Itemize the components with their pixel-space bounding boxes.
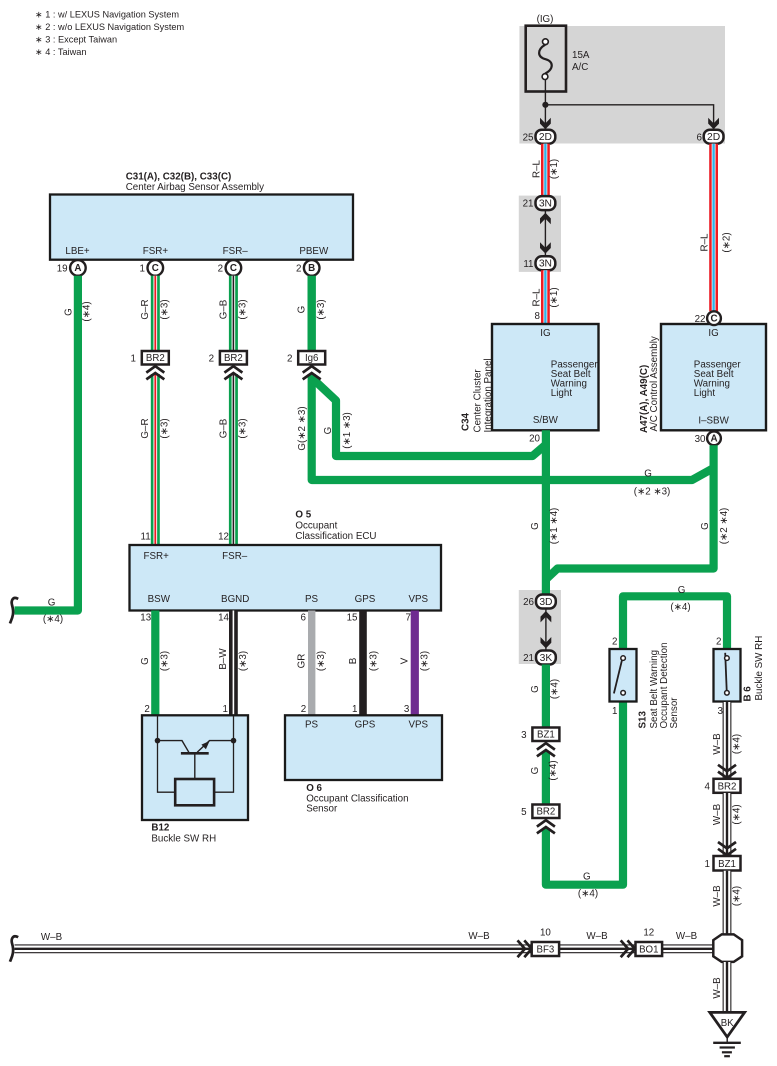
chevrons right into BF3 bbox=[518, 940, 532, 957]
wire W-B junction to BK bbox=[712, 962, 727, 1012]
svg-text:8: 8 bbox=[535, 311, 541, 322]
svg-text:BGND: BGND bbox=[221, 594, 249, 605]
wire GR (*3) PS to O6 bbox=[297, 611, 327, 716]
svg-text:1: 1 bbox=[131, 354, 136, 365]
svg-text:1: 1 bbox=[612, 706, 617, 717]
svg-text:R–L: R–L bbox=[699, 233, 710, 252]
svg-text:11: 11 bbox=[523, 259, 533, 270]
continuation squiggle (G wire) bbox=[10, 598, 18, 623]
wire G (*4) S13 pin2 to B6 pin2 bbox=[623, 585, 727, 649]
svg-text:3: 3 bbox=[521, 730, 527, 741]
connector BZ1 pin 1 bbox=[714, 856, 741, 871]
svg-text:A/C: A/C bbox=[572, 62, 588, 73]
svg-text:G(∗2 ∗3): G(∗2 ∗3) bbox=[297, 406, 308, 450]
svg-text:W–B: W–B bbox=[468, 931, 490, 942]
svg-text:S/BW: S/BW bbox=[533, 415, 559, 426]
arrow into 2D pin 25 bbox=[540, 118, 551, 129]
svg-text:B–W: B–W bbox=[218, 648, 229, 670]
connector BR2 pin 5 bbox=[532, 805, 559, 819]
svg-text:2: 2 bbox=[287, 354, 292, 365]
svg-text:(∗3): (∗3) bbox=[160, 418, 171, 438]
svg-text:G–B: G–B bbox=[218, 299, 229, 319]
svg-text:FSR–: FSR– bbox=[223, 246, 249, 257]
svg-text:G: G bbox=[297, 306, 308, 314]
A47(A) A49(C) A/C Control Assembly box bbox=[661, 324, 766, 430]
svg-text:BK: BK bbox=[721, 1018, 734, 1029]
svg-text:(∗4): (∗4) bbox=[670, 602, 690, 613]
svg-text:C31(A), C32(B), C33(C): C31(A), C32(B), C33(C) bbox=[126, 171, 232, 182]
svg-text:G: G bbox=[530, 685, 541, 693]
svg-text:A: A bbox=[74, 263, 81, 274]
svg-text:(∗1 ∗4): (∗1 ∗4) bbox=[549, 508, 560, 545]
shaded connector area 3D/3K bbox=[519, 590, 561, 664]
wire W-B (*4) B6 pin3 to BR2 bbox=[712, 702, 743, 779]
C31/C32/C33 Center Airbag Sensor Assembly box bbox=[50, 195, 353, 260]
svg-text:IG: IG bbox=[708, 328, 718, 339]
B12 sensor body rectangle bbox=[175, 779, 214, 805]
svg-text:W–B: W–B bbox=[41, 932, 63, 943]
wire W-B bottom horizontal to junction bbox=[15, 944, 714, 953]
ground symbol bbox=[726, 1035, 728, 1043]
svg-text:FSR+: FSR+ bbox=[143, 246, 169, 257]
svg-text:BF3: BF3 bbox=[537, 944, 555, 955]
svg-text:C34: C34 bbox=[460, 412, 471, 431]
wire between 3D and 3K bbox=[545, 609, 547, 652]
svg-text:(∗4): (∗4) bbox=[731, 886, 742, 906]
svg-text:C: C bbox=[710, 313, 717, 324]
svg-text:W–B: W–B bbox=[712, 885, 723, 907]
svg-text:Ig6: Ig6 bbox=[305, 353, 318, 364]
svg-text:B 6: B 6 bbox=[743, 686, 754, 702]
svg-text:2: 2 bbox=[144, 704, 149, 715]
svg-text:(∗3): (∗3) bbox=[316, 299, 327, 319]
svg-text:G: G bbox=[530, 522, 541, 530]
svg-text:PS: PS bbox=[305, 719, 319, 730]
svg-text:Sensor: Sensor bbox=[306, 804, 338, 815]
svg-text:12: 12 bbox=[643, 928, 654, 939]
svg-text:R–L: R–L bbox=[532, 288, 543, 307]
wire G-R (*3) BR2 to O5 FSR+ bbox=[140, 374, 170, 545]
svg-text:(∗3): (∗3) bbox=[238, 651, 249, 671]
svg-text:12: 12 bbox=[218, 532, 229, 543]
svg-text:3D: 3D bbox=[539, 597, 552, 608]
fuse element bbox=[539, 45, 552, 74]
wire G (*3) BSW to B12 bbox=[140, 611, 170, 716]
wire fuse output to junction bbox=[545, 80, 713, 130]
svg-text:(∗4): (∗4) bbox=[731, 734, 742, 754]
svg-text:(∗2): (∗2) bbox=[721, 232, 732, 252]
svg-text:BSW: BSW bbox=[148, 594, 171, 605]
svg-text:2D: 2D bbox=[707, 132, 720, 143]
svg-text:1: 1 bbox=[140, 264, 145, 275]
svg-text:3N: 3N bbox=[539, 259, 552, 270]
wire G (*1 *3) branch from Ig6 to S/BW bbox=[312, 378, 547, 456]
svg-text:G: G bbox=[700, 522, 711, 530]
svg-text:1: 1 bbox=[704, 859, 709, 870]
connector Ig6 pin 2 bbox=[298, 351, 325, 365]
svg-text:Buckle SW RH: Buckle SW RH bbox=[151, 834, 216, 845]
arrow down into 3K bbox=[541, 637, 552, 648]
wire G (*2 *4) from connector A down, left into 3D column bbox=[546, 445, 731, 580]
B12 base to sensor body bbox=[194, 753, 196, 779]
connector A pin 30 bbox=[707, 431, 721, 445]
svg-text:GR: GR bbox=[297, 654, 308, 669]
svg-text:O 5: O 5 bbox=[295, 510, 311, 521]
wire W-B (*4) BR2 to BZ1 bbox=[712, 793, 743, 856]
svg-text:6: 6 bbox=[301, 613, 307, 624]
wire G (*4) 3K to BZ1 bbox=[530, 665, 561, 728]
svg-text:6: 6 bbox=[697, 132, 703, 143]
svg-text:G: G bbox=[48, 598, 56, 609]
chevrons right into BO1 bbox=[621, 940, 635, 957]
svg-text:∗ 1 : w/ LEXUS Navigation Syst: ∗ 1 : w/ LEXUS Navigation System bbox=[35, 10, 179, 20]
svg-text:(∗3): (∗3) bbox=[420, 651, 431, 671]
chevrons down into BZ1 pin1 bbox=[718, 842, 736, 855]
connector BF3 pin 10 bbox=[532, 942, 559, 956]
svg-text:A: A bbox=[710, 433, 717, 444]
svg-text:2: 2 bbox=[209, 354, 214, 365]
svg-text:VPS: VPS bbox=[408, 594, 428, 605]
svg-text:∗ 2 : w/o LEXUS Navigation Sys: ∗ 2 : w/o LEXUS Navigation System bbox=[35, 22, 184, 32]
svg-text:FSR+: FSR+ bbox=[144, 551, 170, 562]
svg-text:LBE+: LBE+ bbox=[65, 246, 90, 257]
connector BR2 pin 4 bbox=[714, 779, 741, 793]
svg-text:25: 25 bbox=[523, 132, 534, 143]
svg-text:7: 7 bbox=[406, 613, 411, 624]
wire R-L (*2) 2D to connector C bbox=[699, 144, 732, 312]
connector C pin 22 bbox=[707, 311, 721, 325]
chevrons below BZ1 pin3 bbox=[537, 743, 555, 756]
svg-text:(∗1 ∗3): (∗1 ∗3) bbox=[342, 412, 353, 449]
svg-text:13: 13 bbox=[140, 613, 151, 624]
svg-text:G: G bbox=[63, 308, 74, 316]
connector BR2 pin 2 bbox=[220, 351, 247, 365]
svg-text:GPS: GPS bbox=[355, 594, 376, 605]
svg-text:C: C bbox=[152, 263, 159, 274]
svg-text:BR2: BR2 bbox=[718, 781, 737, 792]
connector 2D pin 25 bbox=[536, 130, 556, 144]
svg-text:Center Airbag Sensor Assembly: Center Airbag Sensor Assembly bbox=[126, 182, 264, 193]
svg-text:IG: IG bbox=[540, 328, 550, 339]
svg-text:20: 20 bbox=[529, 434, 540, 445]
svg-text:3N: 3N bbox=[539, 199, 552, 210]
svg-text:4: 4 bbox=[704, 782, 710, 793]
wire R-L (*1) 2D to 3N bbox=[532, 144, 561, 197]
svg-text:BR2: BR2 bbox=[224, 353, 243, 364]
svg-text:(∗3): (∗3) bbox=[160, 651, 171, 671]
svg-text:(∗4): (∗4) bbox=[550, 679, 561, 699]
connector BZ1 pin 3 bbox=[532, 728, 559, 742]
O5 Occupant Classification ECU box bbox=[130, 545, 442, 611]
connector 3N pin 21 bbox=[536, 196, 556, 210]
svg-text:V: V bbox=[400, 657, 411, 664]
connector C pin 1 bbox=[148, 260, 164, 276]
svg-text:2: 2 bbox=[301, 704, 306, 715]
svg-text:PS: PS bbox=[305, 594, 319, 605]
svg-text:Sensor: Sensor bbox=[669, 697, 680, 729]
svg-text:(∗1): (∗1) bbox=[549, 159, 560, 179]
svg-text:(∗4): (∗4) bbox=[82, 301, 93, 321]
svg-text:G: G bbox=[583, 871, 591, 882]
svg-text:2D: 2D bbox=[539, 132, 552, 143]
svg-text:G–B: G–B bbox=[218, 418, 229, 438]
svg-text:BR2: BR2 bbox=[146, 353, 165, 364]
chevrons below BR2 pin5 bbox=[537, 820, 555, 833]
svg-text:11: 11 bbox=[141, 532, 151, 543]
svg-text:19: 19 bbox=[57, 264, 68, 275]
svg-text:14: 14 bbox=[218, 613, 229, 624]
wire between 3N connectors bbox=[544, 210, 546, 256]
svg-text:(∗3): (∗3) bbox=[368, 651, 379, 671]
svg-text:1: 1 bbox=[222, 704, 227, 715]
wire G-B (*3) FSR- to BR2 bbox=[218, 276, 248, 351]
wire G-R (*3) FSR+ to BR2 bbox=[140, 276, 170, 351]
svg-text:G: G bbox=[644, 469, 652, 480]
arrow down into 3N 11 bbox=[540, 242, 551, 253]
svg-text:2: 2 bbox=[218, 264, 223, 275]
connector BO1 pin 12 bbox=[636, 942, 663, 956]
svg-text:30: 30 bbox=[695, 434, 706, 445]
wire G (*4) BR2 loop to S13 pin 1 bbox=[546, 702, 623, 900]
svg-text:21: 21 bbox=[523, 199, 534, 210]
wire G-B (*3) BR2 to O5 FSR- bbox=[218, 374, 248, 545]
svg-text:C: C bbox=[230, 263, 237, 274]
B12 transistor base bar bbox=[181, 752, 209, 755]
wire R-L (*1) 3N to C34 pin 8 bbox=[532, 270, 561, 325]
connector BR2 pin 1 bbox=[142, 351, 169, 365]
svg-text:(∗4): (∗4) bbox=[43, 614, 63, 625]
svg-text:G: G bbox=[678, 585, 686, 596]
svg-text:S13: S13 bbox=[638, 711, 649, 729]
wire G (*3) PBEW to Ig6 bbox=[297, 276, 327, 351]
svg-text:W–B: W–B bbox=[586, 931, 608, 942]
chevrons down into BR2 pin4 bbox=[718, 765, 736, 778]
svg-text:(∗4): (∗4) bbox=[548, 760, 559, 780]
svg-text:BO1: BO1 bbox=[639, 944, 658, 955]
wire G(*2 *3) from Ig6 straight down, right to A/C assembly bbox=[297, 374, 715, 498]
svg-text:26: 26 bbox=[523, 597, 534, 608]
svg-text:B: B bbox=[348, 657, 359, 664]
connector 3N pin 11 bbox=[536, 256, 556, 270]
svg-text:(∗3): (∗3) bbox=[238, 418, 249, 438]
wire B-W (*3) BGND to B12 bbox=[218, 611, 249, 716]
continuation squiggle (W-B wire) bbox=[10, 936, 18, 961]
B12 transistor collector line bbox=[158, 741, 189, 753]
svg-text:5: 5 bbox=[521, 807, 527, 818]
svg-text:2: 2 bbox=[716, 636, 721, 647]
svg-text:I–SBW: I–SBW bbox=[698, 416, 729, 427]
svg-text:3: 3 bbox=[404, 704, 410, 715]
B6 switch contacts bbox=[725, 653, 727, 691]
O6 Occupant Classification Sensor box bbox=[285, 715, 442, 780]
B12 transistor emitter line with arrow bbox=[197, 741, 233, 753]
svg-text:(∗2 ∗4): (∗2 ∗4) bbox=[719, 508, 730, 545]
S13 switch contacts bbox=[614, 660, 622, 693]
svg-text:B: B bbox=[308, 263, 315, 274]
svg-text:W–B: W–B bbox=[676, 931, 698, 942]
svg-text:W–B: W–B bbox=[712, 803, 723, 825]
svg-text:10: 10 bbox=[540, 928, 551, 939]
svg-text:(∗4): (∗4) bbox=[578, 889, 598, 900]
svg-text:(∗3): (∗3) bbox=[160, 299, 171, 319]
svg-text:G: G bbox=[323, 427, 334, 435]
svg-text:G–R: G–R bbox=[140, 418, 151, 438]
svg-text:(∗4): (∗4) bbox=[731, 804, 742, 824]
chevrons below BR2 pin2 bbox=[224, 366, 242, 379]
svg-text:22: 22 bbox=[695, 314, 706, 325]
B12 internal wire right bbox=[214, 716, 233, 792]
junction dot bbox=[542, 102, 548, 108]
svg-text:BZ1: BZ1 bbox=[537, 730, 555, 741]
svg-text:(IG): (IG) bbox=[537, 14, 554, 25]
fuse 15A A/C box bbox=[526, 26, 566, 92]
svg-text:∗ 4 : Taiwan: ∗ 4 : Taiwan bbox=[35, 47, 86, 57]
svg-text:3K: 3K bbox=[540, 653, 553, 664]
B12 junction dots bbox=[155, 738, 161, 744]
svg-text:B12: B12 bbox=[151, 823, 170, 834]
svg-text:∗ 3 : Except Taiwan: ∗ 3 : Except Taiwan bbox=[35, 35, 117, 45]
shaded junction-block area (top right) bbox=[519, 26, 725, 144]
svg-text:Integration Panel: Integration Panel bbox=[483, 358, 494, 432]
wire W-B (*4) BZ1 to junction bbox=[712, 871, 743, 935]
svg-text:W–B: W–B bbox=[712, 977, 723, 999]
svg-text:2: 2 bbox=[296, 264, 301, 275]
connector B pin 2 bbox=[304, 260, 320, 276]
connector A pin 19 bbox=[70, 260, 86, 276]
svg-text:15A: 15A bbox=[572, 50, 590, 61]
svg-text:(∗3): (∗3) bbox=[316, 651, 327, 671]
svg-text:Light: Light bbox=[694, 388, 716, 399]
svg-text:G: G bbox=[140, 657, 151, 665]
wire G (*4) BZ1 to BR2 bbox=[530, 752, 559, 805]
chevrons below Ig6 bbox=[303, 366, 321, 379]
svg-text:W–B: W–B bbox=[712, 733, 723, 755]
svg-text:R–L: R–L bbox=[532, 159, 543, 178]
svg-text:(∗1): (∗1) bbox=[549, 287, 560, 307]
connector 3K pin 21 bbox=[536, 651, 556, 665]
wire V (*3) VPS to O6 bbox=[400, 611, 431, 716]
svg-text:1: 1 bbox=[352, 704, 357, 715]
arrow up into 3N 21 bbox=[540, 213, 551, 224]
wire G (*1 *4) S/BW pin 20 down to 3D bbox=[530, 430, 560, 596]
S13 Seat Belt Warning Occupant Detection Sensor box bbox=[610, 649, 637, 702]
svg-text:GPS: GPS bbox=[355, 719, 376, 730]
connector 2D pin 6 bbox=[704, 130, 724, 144]
wire G (*4) from LBE+ down and left to continuation bbox=[15, 276, 93, 625]
svg-text:2: 2 bbox=[612, 636, 617, 647]
C34 Center Cluster Integration Panel box bbox=[492, 324, 599, 430]
arrow into 2D pin 6 bbox=[708, 118, 719, 129]
svg-text:PBEW: PBEW bbox=[299, 246, 329, 257]
junction octagon bbox=[713, 934, 742, 962]
svg-text:A/C Control Assembly: A/C Control Assembly bbox=[649, 336, 660, 431]
svg-text:G–R: G–R bbox=[140, 299, 151, 319]
svg-text:BR2: BR2 bbox=[536, 807, 555, 818]
svg-text:Buckle SW RH: Buckle SW RH bbox=[754, 636, 765, 701]
svg-text:21: 21 bbox=[523, 653, 534, 664]
shaded connector area 3N bbox=[519, 196, 561, 272]
svg-text:Classification ECU: Classification ECU bbox=[295, 531, 376, 542]
B12 internal wire left bbox=[158, 716, 176, 792]
svg-text:BZ1: BZ1 bbox=[718, 859, 736, 870]
svg-text:VPS: VPS bbox=[408, 719, 428, 730]
svg-text:Light: Light bbox=[551, 388, 573, 399]
svg-text:(∗3): (∗3) bbox=[238, 299, 249, 319]
svg-text:(∗2 ∗3): (∗2 ∗3) bbox=[634, 487, 671, 498]
B6 Buckle SW RH box bbox=[714, 649, 741, 702]
svg-text:FSR–: FSR– bbox=[222, 551, 248, 562]
svg-text:15: 15 bbox=[347, 613, 358, 624]
svg-text:O 6: O 6 bbox=[306, 783, 322, 794]
wire B (*3) GPS to O6 bbox=[348, 611, 379, 716]
chevrons below BR2 pin1 bbox=[146, 366, 164, 379]
arrow up into 3D bbox=[541, 611, 552, 622]
connector 3D pin 26 bbox=[536, 595, 556, 609]
svg-text:Occupant: Occupant bbox=[295, 521, 337, 532]
ground point BK bbox=[710, 1012, 745, 1037]
B12 Buckle SW RH box bbox=[142, 715, 248, 820]
connector C pin 2 bbox=[226, 260, 242, 276]
svg-text:G: G bbox=[530, 767, 541, 775]
